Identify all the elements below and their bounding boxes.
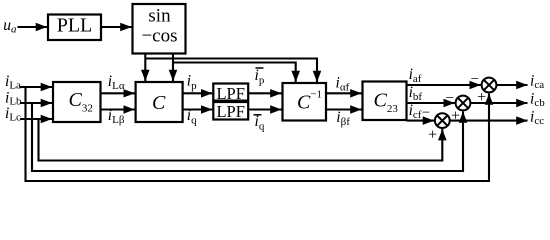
block: C transform — [136, 82, 183, 122]
summer S2 (row b) — [456, 96, 471, 111]
wire: iLc feedback down along bottom up to summer S3 — [39, 119, 443, 161]
wire: PLL to sin-cos — [101, 26, 132, 28]
summer S1 (row a) — [482, 78, 497, 93]
wire: i-alpha-f C-inverse to C23 — [326, 92, 362, 94]
svg-text:iaf: iaf — [409, 66, 422, 85]
svg-text:+: + — [428, 126, 437, 143]
wire: i-beta-f C-inverse to C23 — [326, 108, 362, 110]
svg-text:C: C — [152, 92, 166, 114]
svg-text:iq: iq — [255, 113, 265, 133]
wire: iaf C23 to summer S1 — [407, 84, 481, 86]
svg-text:C−1: C−1 — [297, 89, 322, 114]
block: LPF2 low-pass filter — [213, 102, 248, 120]
svg-text:LPF: LPF — [216, 84, 244, 103]
block: C-inverse transform — [283, 83, 327, 121]
wire: ip-bar LPF1 to C-inverse — [248, 92, 281, 94]
wire: iq C to LPF2 — [183, 108, 213, 110]
wire: iq-bar LPF2 to C-inverse — [248, 108, 281, 110]
wire: cos branch over to C-inverse — [173, 63, 296, 83]
svg-text:+: + — [451, 108, 460, 125]
wire: iLa feedback down along bottom up to summer S1 — [26, 87, 490, 181]
svg-text:ua: ua — [3, 17, 17, 36]
wire: iL-alpha C32 to C — [101, 92, 135, 94]
block: LPF1 low-pass filter — [213, 84, 248, 101]
block: C23 transform — [363, 82, 407, 121]
svg-text:ip: ip — [255, 67, 265, 87]
svg-text:C32: C32 — [69, 89, 93, 115]
svg-text:−: − — [471, 72, 479, 88]
svg-text:−: − — [446, 90, 454, 106]
svg-text:iLα: iLα — [108, 73, 125, 92]
label: ip-bar — [255, 67, 265, 87]
block: C32 transform — [53, 82, 101, 122]
wire: ip C to LPF1 — [183, 92, 213, 94]
wire: cos output down into C — [172, 54, 174, 82]
wire: summer S2 output icb — [470, 102, 527, 104]
block: PLL U1 — [48, 15, 101, 41]
wire: sin branch over to C-inverse — [145, 59, 317, 83]
wire: summer S1 output ica — [496, 84, 527, 86]
label: iq-bar — [254, 113, 265, 133]
wire: sin output down into C — [144, 54, 146, 82]
wire: icf C23 to summer S3 — [407, 120, 435, 122]
svg-text:ip: ip — [187, 72, 197, 92]
wire: iLb input into C32 — [20, 102, 52, 104]
svg-text:ibf: ibf — [409, 84, 423, 103]
wire: iLb feedback down along bottom up to summer S2 — [32, 103, 463, 171]
svg-text:icc: icc — [530, 108, 544, 127]
svg-text:icf: icf — [409, 102, 422, 121]
wire: summer S3 output icc — [450, 120, 528, 122]
wire: iLa input into C32 — [20, 86, 52, 88]
svg-text:−: − — [422, 105, 430, 121]
block: sin -cos generator U2 — [133, 4, 186, 54]
svg-text:icb: icb — [530, 91, 545, 110]
svg-text:C23: C23 — [374, 90, 399, 115]
svg-text:iαf: iαf — [336, 75, 350, 94]
wire: ibf C23 to summer S2 — [407, 102, 455, 104]
svg-text:iLc: iLc — [5, 105, 21, 123]
svg-text:−cos: −cos — [141, 26, 177, 47]
svg-text:ica: ica — [530, 73, 544, 92]
svg-text:PLL: PLL — [57, 15, 93, 37]
svg-text:iβf: iβf — [336, 109, 350, 128]
svg-text:sin: sin — [148, 6, 171, 27]
svg-text:+: + — [477, 89, 486, 106]
wire: ua input to PLL — [18, 26, 48, 28]
wire: iL-beta C32 to C — [101, 108, 135, 110]
svg-text:LPF: LPF — [216, 102, 244, 121]
summer S3 (row c) — [435, 113, 450, 128]
wire: iLc input into C32 — [20, 118, 52, 120]
